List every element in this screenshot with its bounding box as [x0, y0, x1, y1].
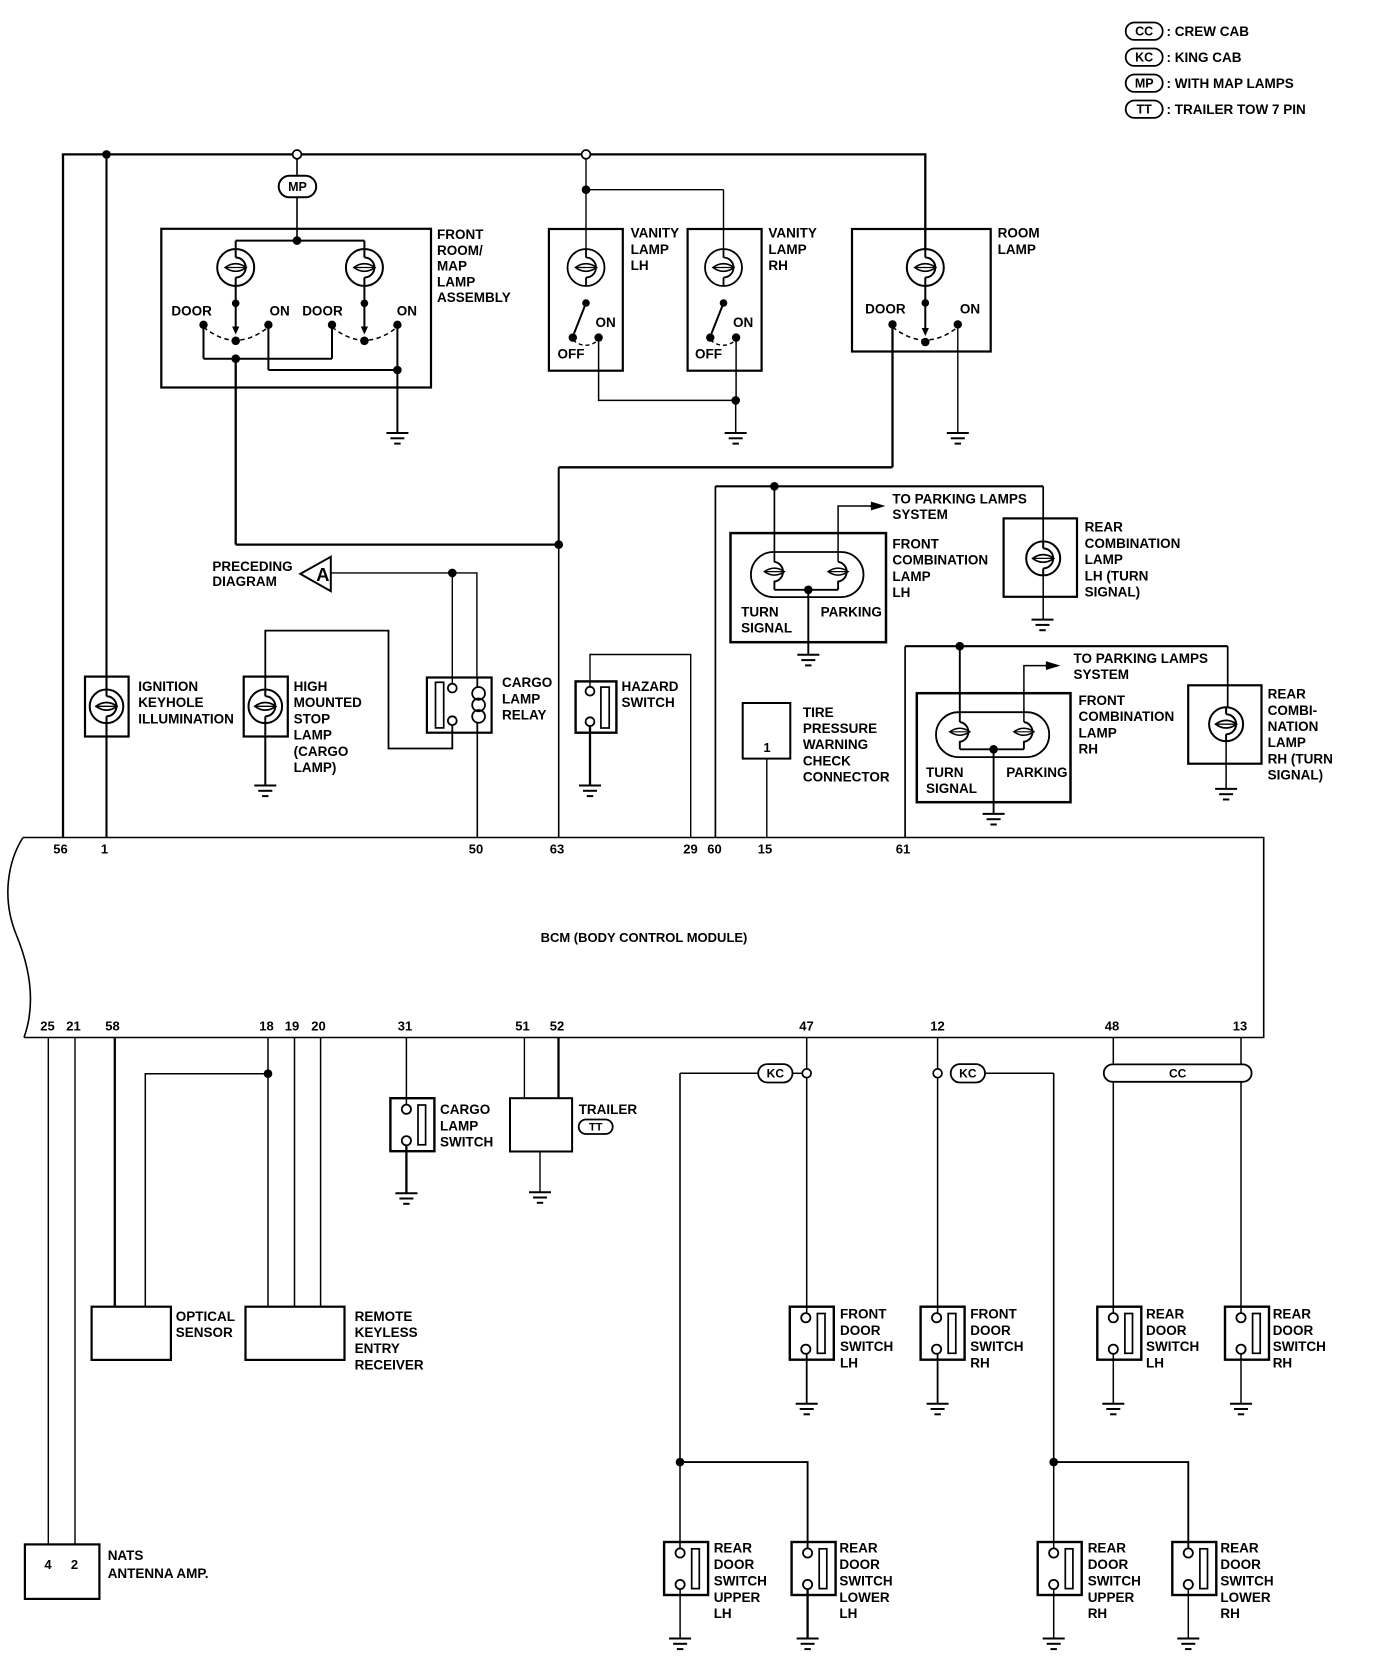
svg-text:ILLUMINATION: ILLUMINATION — [138, 711, 234, 726]
label DOOR map switch 1 — [171, 303, 212, 318]
wire BCM pin 31 to cargo lamp switch — [405, 1038, 407, 1105]
wire hazard switch to ground — [589, 726, 591, 785]
bulb rear combination lamp LH — [1026, 541, 1060, 575]
bulb map lamp 2 — [346, 249, 383, 286]
pin number 12 (BCM bottom) — [930, 1019, 944, 1034]
svg-text:BCM (BODY CONTROL MODULE): BCM (BODY CONTROL MODULE) — [541, 930, 748, 945]
wire to rear door switch upper RH — [1053, 1462, 1055, 1548]
wire room DOOR horizontal run — [559, 466, 893, 468]
wire junction down to BCM pin 63 — [558, 545, 560, 838]
svg-text:OFF: OFF — [558, 347, 585, 362]
svg-text:56: 56 — [53, 842, 67, 857]
wire ON contact 1 down — [267, 328, 269, 370]
svg-text:CARGO: CARGO — [502, 675, 552, 690]
junction KC branch LH / lower switch — [676, 1458, 685, 1467]
svg-text:CARGO: CARGO — [440, 1102, 490, 1117]
front combination RH parking lens — [1014, 728, 1034, 735]
label rear door switch upper LH — [714, 1541, 767, 1622]
legend connector symbol CC — [1126, 23, 1163, 40]
svg-text:IGNITION: IGNITION — [138, 679, 198, 694]
label rear door switch LH — [1146, 1306, 1199, 1370]
wire map assembly DOOR output down — [235, 359, 237, 545]
bulb rear combination lamp RH — [1209, 707, 1243, 741]
svg-text:48: 48 — [1105, 1019, 1119, 1034]
svg-text:RH (TURN: RH (TURN — [1268, 751, 1333, 766]
rear door switch RH — [1225, 1307, 1269, 1360]
pin number 13 (BCM bottom) — [1233, 1019, 1247, 1034]
svg-text:DOOR: DOOR — [970, 1323, 1011, 1338]
svg-text:CONNECTOR: CONNECTOR — [803, 770, 890, 785]
label BCM (body control module) — [541, 930, 748, 945]
contact OFF vanity LH — [569, 333, 577, 341]
label vanity lamp LH — [631, 226, 680, 273]
wire DOOR contact 2 down — [331, 328, 333, 359]
front combination RH parking filament hook — [1024, 722, 1033, 749]
bulb vanity lamp RH — [705, 249, 742, 286]
svg-text:ON: ON — [733, 315, 753, 330]
option connector MP (with map lamps) — [279, 176, 317, 198]
svg-text:STOP: STOP — [294, 711, 331, 726]
svg-text:ON: ON — [596, 315, 616, 330]
svg-text:HAZARD: HAZARD — [622, 679, 679, 694]
contact ON vanity LH — [594, 333, 602, 341]
svg-text:FRONT: FRONT — [840, 1306, 887, 1321]
wire BCM pin 12 to front door switch RH — [937, 1038, 939, 1314]
svg-text:RH: RH — [768, 258, 788, 273]
contact DOOR map switch 2 — [328, 321, 336, 329]
svg-text:SWITCH: SWITCH — [970, 1339, 1023, 1354]
svg-text:MOUNTED: MOUNTED — [294, 695, 362, 710]
ground rear door switch LH — [1102, 1404, 1124, 1415]
wire turn signal LH rail — [715, 485, 1043, 487]
bulb map lamp 1 — [217, 249, 254, 286]
junction rail / front combination LH — [770, 482, 779, 491]
pin number 58 (BCM bottom) — [105, 1019, 119, 1034]
wire pin 18 branch to optical sensor — [145, 1074, 268, 1307]
contact OFF vanity RH — [706, 333, 714, 341]
junction vanity feed split — [582, 185, 591, 194]
svg-text:25: 25 — [40, 1019, 54, 1034]
connector circle on pin 12 line — [933, 1069, 942, 1078]
wire KC branch LH down — [679, 1073, 681, 1462]
svg-text:FRONT: FRONT — [970, 1306, 1017, 1321]
svg-text:VANITY: VANITY — [768, 226, 817, 241]
label optical sensor — [176, 1309, 235, 1340]
svg-text:SYSTEM: SYSTEM — [1074, 667, 1130, 682]
wire A-line to cargo lamp relay coil — [331, 573, 477, 678]
label rear door switch lower LH — [839, 1541, 892, 1622]
dashed wiper arc room lamp — [893, 327, 958, 340]
pin number 25 (BCM bottom) — [40, 1019, 54, 1034]
wire BCM pin 52 to trailer — [557, 1038, 559, 1099]
svg-text:TT: TT — [589, 1122, 603, 1134]
svg-text:WARNING: WARNING — [803, 737, 868, 752]
label PARKING LH — [821, 604, 882, 619]
svg-text:15: 15 — [758, 842, 772, 857]
svg-text:OFF: OFF — [695, 347, 722, 362]
svg-text:LH: LH — [840, 1356, 858, 1371]
svg-text:ASSEMBLY: ASSEMBLY — [437, 290, 511, 305]
svg-text:TRAILER: TRAILER — [579, 1102, 638, 1117]
label ON map switch 1 — [270, 303, 290, 318]
wire vanity RH ON down to ground — [735, 342, 737, 401]
svg-text:SWITCH: SWITCH — [1088, 1573, 1141, 1588]
pin number 20 (BCM bottom) — [311, 1019, 325, 1034]
hazard switch terminal upper — [586, 687, 595, 696]
label trailer — [579, 1102, 638, 1117]
svg-text:FRONT: FRONT — [1079, 693, 1126, 708]
switch lever vanity RH — [712, 303, 724, 334]
svg-text:TURN: TURN — [926, 765, 964, 780]
svg-text:DOOR: DOOR — [714, 1557, 755, 1572]
option connector TT (trailer tow) — [579, 1120, 613, 1135]
wire rear door switch lower LH to ground — [806, 1589, 808, 1638]
switch pivot vanity RH — [720, 299, 728, 307]
svg-text:60: 60 — [707, 842, 721, 857]
pin number 18 (BCM bottom) — [259, 1019, 273, 1034]
svg-text:A: A — [316, 564, 329, 585]
label front combination lamp LH — [892, 536, 988, 600]
switch pivot map lamp 1 — [231, 337, 240, 346]
svg-text:CC: CC — [1135, 25, 1153, 39]
svg-text:52: 52 — [550, 1019, 564, 1034]
switch wiper arrow room lamp — [922, 287, 929, 337]
svg-text:LAMP: LAMP — [440, 1118, 478, 1133]
wire BCM pin 47 to front door switch LH — [806, 1038, 808, 1314]
wire front door switch LH to ground — [806, 1354, 808, 1404]
svg-text:: WITH MAP LAMPS: : WITH MAP LAMPS — [1167, 76, 1294, 91]
svg-text:PRESSURE: PRESSURE — [803, 721, 877, 736]
switch pivot map lamp 2 — [360, 337, 369, 346]
dashed arc vanity RH switch — [710, 340, 736, 345]
svg-text:TURN: TURN — [741, 604, 779, 619]
ground rear door switch RH — [1230, 1404, 1252, 1415]
pin number 15 (BCM top) — [758, 842, 772, 857]
cargo lamp relay contact bar — [436, 682, 444, 728]
svg-text:OPTICAL: OPTICAL — [176, 1309, 235, 1324]
label pin 1 of check connector — [763, 740, 770, 755]
wire BCM pin 20 down — [320, 1038, 322, 1307]
svg-text:LH: LH — [714, 1606, 732, 1621]
terminal dot below map bulb 2 — [361, 300, 369, 308]
hazard switch terminal lower — [586, 717, 595, 726]
svg-text:MAP: MAP — [437, 259, 467, 274]
svg-text:MP: MP — [288, 180, 307, 194]
pin number 19 (BCM bottom) — [285, 1019, 299, 1034]
junction rail / front combination RH — [956, 642, 965, 651]
svg-text:RH: RH — [970, 1356, 990, 1371]
label preceding diagram — [212, 559, 292, 589]
arrow to parking lamps system RH — [1045, 661, 1060, 670]
svg-text:29: 29 — [683, 842, 697, 857]
cargo lamp relay box — [427, 678, 492, 733]
wire BCM pin 58 to optical sensor — [114, 1038, 116, 1307]
svg-text:63: 63 — [550, 842, 564, 857]
label hazard switch — [622, 679, 679, 710]
legend text TRAILER TOW 7 PIN — [1167, 102, 1306, 117]
svg-text:KEYLESS: KEYLESS — [355, 1325, 418, 1340]
wire front door switch RH to ground — [937, 1354, 939, 1404]
label rear combination lamp LH — [1085, 520, 1181, 600]
svg-text:1: 1 — [101, 842, 108, 857]
wire vanity ground stem — [735, 400, 737, 433]
label front room/map lamp assembly — [437, 227, 511, 305]
contact ON map switch 1 — [264, 321, 272, 329]
wire BCM pin 61 up — [904, 646, 906, 837]
junction KC branch RH / lower switch — [1049, 1458, 1058, 1467]
wire relay output to high mounted stop lamp — [265, 631, 452, 749]
label vanity lamp RH — [768, 226, 817, 273]
connector circle on rail at vanity branch — [582, 150, 591, 159]
svg-text:NATION: NATION — [1268, 719, 1319, 734]
bulb high mounted stop lamp — [248, 690, 282, 724]
ground front combination lamp LH — [797, 655, 819, 666]
contact DOOR room lamp — [888, 320, 896, 328]
svg-text:DOOR: DOOR — [865, 301, 906, 316]
front combination lamp LH box — [731, 533, 887, 642]
svg-text:RH: RH — [1088, 1606, 1108, 1621]
wire hazard switch to BCM pin 29 — [590, 655, 691, 838]
switch pivot vanity LH — [582, 299, 590, 307]
pin number 2 (NATS) — [71, 1557, 78, 1572]
pin number 61 (BCM top) — [896, 842, 910, 857]
pin number 29 (BCM top) — [683, 842, 697, 857]
junction vanity grounds — [731, 396, 740, 405]
svg-text:RECEIVER: RECEIVER — [355, 1357, 424, 1372]
front door switch RH — [921, 1307, 965, 1360]
option connector KC (king cab) left — [758, 1064, 792, 1082]
label ignition keyhole illumination — [138, 679, 234, 726]
room lamp box — [852, 229, 991, 352]
svg-text:51: 51 — [515, 1019, 529, 1034]
wire BCM pin 48 to rear door switch LH — [1112, 1038, 1114, 1314]
label tire pressure warning check connector — [803, 705, 890, 785]
wire DOOR contact 1 down — [203, 328, 205, 359]
svg-text:SWITCH: SWITCH — [714, 1573, 767, 1588]
wire room lamp DOOR output down — [891, 328, 893, 467]
svg-text:2: 2 — [71, 1557, 78, 1572]
wire BCM pin 18 down — [267, 1038, 269, 1307]
svg-text:DOOR: DOOR — [1088, 1557, 1129, 1572]
svg-text:PRECEDING: PRECEDING — [212, 559, 292, 574]
vanity lamp RH box — [688, 229, 762, 371]
front combination lamp RH box — [917, 693, 1071, 802]
svg-text:COMBINATION: COMBINATION — [892, 553, 988, 568]
ground rear combination lamp RH — [1215, 789, 1237, 800]
svg-text:LAMP: LAMP — [1085, 552, 1123, 567]
label PARKING RH — [1006, 765, 1067, 780]
switch lever vanity LH — [574, 303, 586, 334]
pin number 31 (BCM bottom) — [398, 1019, 412, 1034]
legend connector symbol TT — [1126, 101, 1163, 118]
ground front combination lamp RH — [983, 814, 1005, 825]
switch wiper arrow map lamp 2 — [361, 287, 368, 335]
pin number 4 (NATS) — [44, 1557, 52, 1572]
wire KC branch LH horizontal — [680, 1072, 758, 1074]
svg-text:REAR: REAR — [1088, 1541, 1127, 1556]
option connector CC (crew cab) — [1104, 1064, 1252, 1081]
label NATS antenna amp — [108, 1548, 209, 1581]
svg-text:PARKING: PARKING — [821, 604, 882, 619]
wire pin 56 vertical (battery feed left) — [62, 154, 64, 837]
svg-text:31: 31 — [398, 1019, 412, 1034]
ground rear door switch upper RH — [1043, 1639, 1065, 1650]
trailer connector box — [510, 1098, 572, 1151]
wire front comb LH to ground — [807, 590, 809, 655]
wire MP connector to map lamp assembly — [296, 197, 298, 240]
junction A-line / relay contact feed — [448, 569, 457, 578]
svg-text:FRONT: FRONT — [437, 227, 484, 242]
svg-text:50: 50 — [469, 842, 483, 857]
svg-text:DOOR: DOOR — [840, 1323, 881, 1338]
wire vanity LH ON to ground bus — [599, 342, 734, 401]
junction ON bus / ground leg — [393, 366, 402, 375]
label to parking lamps system RH — [1074, 651, 1209, 682]
svg-text:LOWER: LOWER — [1220, 1590, 1270, 1605]
svg-text:SWITCH: SWITCH — [440, 1135, 493, 1150]
ground trailer — [529, 1192, 551, 1203]
svg-text:20: 20 — [311, 1019, 325, 1034]
junction feed bus / entry — [293, 236, 302, 245]
label front door switch RH — [970, 1306, 1023, 1370]
off-page connector triangle A — [300, 557, 331, 591]
ground rear door switch lower RH — [1177, 1639, 1199, 1650]
ground front door switch LH — [796, 1404, 818, 1415]
legend text WITH MAP LAMPS — [1167, 76, 1294, 91]
label to parking lamps system LH — [892, 491, 1027, 522]
label rear combination lamp RH — [1268, 687, 1333, 783]
wire front comb RH to ground — [993, 749, 995, 814]
svg-text:NATS: NATS — [108, 1548, 144, 1563]
svg-text:CHECK: CHECK — [803, 753, 851, 768]
wire pin 1 drop upper (to ignition keyhole lamp) — [105, 154, 107, 690]
legend connector symbol MP — [1126, 75, 1163, 92]
svg-text:UPPER: UPPER — [1088, 1590, 1135, 1605]
remote keyless entry receiver box — [246, 1307, 345, 1360]
label front combination lamp RH — [1079, 693, 1175, 757]
svg-text:TO PARKING LAMPS: TO PARKING LAMPS — [1074, 651, 1209, 666]
svg-text:LAMP: LAMP — [294, 728, 332, 743]
svg-text:KC: KC — [1135, 51, 1153, 65]
svg-text:LH: LH — [839, 1606, 857, 1621]
svg-text:DOOR: DOOR — [1146, 1323, 1187, 1338]
wire top power rail — [62, 153, 925, 155]
wire rear door switch upper RH to ground — [1053, 1589, 1055, 1638]
contact ON vanity RH — [732, 333, 740, 341]
svg-text:KEYHOLE: KEYHOLE — [138, 695, 203, 710]
label rear door switch upper RH — [1088, 1541, 1141, 1622]
svg-text:REAR: REAR — [1146, 1306, 1185, 1321]
wire to rear door switch lower RH — [1054, 1462, 1189, 1548]
pin number 63 (BCM top) — [550, 842, 564, 857]
svg-text:SYSTEM: SYSTEM — [892, 507, 948, 522]
svg-text:LAMP: LAMP — [437, 274, 475, 289]
contact ON room lamp — [954, 320, 962, 328]
svg-text:SIGNAL): SIGNAL) — [1085, 585, 1141, 600]
svg-text:LAMP): LAMP) — [294, 760, 337, 775]
wire high mounted stop lamp to ground — [264, 722, 266, 785]
svg-text:UPPER: UPPER — [714, 1590, 761, 1605]
NATS antenna amp box — [25, 1544, 100, 1599]
wire BCM pin 51 to trailer — [523, 1038, 525, 1099]
wire KC branch RH down — [1053, 1073, 1055, 1462]
rear door switch upper RH — [1038, 1542, 1082, 1595]
wire vertical to junction — [558, 467, 560, 544]
svg-text:FRONT: FRONT — [892, 536, 939, 551]
pin number 21 (BCM bottom) — [66, 1019, 80, 1034]
label OFF vanity LH — [558, 347, 585, 362]
wire front comb RH common bus — [960, 748, 1024, 750]
svg-text:ON: ON — [960, 301, 980, 316]
pin number 56 (BCM top) — [53, 842, 67, 857]
svg-text:ANTENNA AMP.: ANTENNA AMP. — [108, 1566, 209, 1581]
svg-text:DOOR: DOOR — [839, 1557, 880, 1572]
svg-text:PARKING: PARKING — [1006, 765, 1067, 780]
svg-text:58: 58 — [105, 1019, 119, 1034]
terminal dot below room bulb — [922, 299, 930, 307]
front combination LH bulb housing (stadium) — [751, 552, 864, 597]
svg-text:18: 18 — [259, 1019, 273, 1034]
ground cargo lamp switch — [395, 1193, 417, 1204]
legend text KING CAB — [1167, 50, 1242, 65]
svg-text:: CREW CAB: : CREW CAB — [1167, 24, 1250, 39]
wire rear door switch upper LH to ground — [679, 1589, 681, 1638]
svg-text:SWITCH: SWITCH — [839, 1573, 892, 1588]
wire room lamp ON to ground — [957, 328, 959, 433]
wire KC pill to branch RH — [985, 1072, 1054, 1074]
svg-text:DOOR: DOOR — [302, 303, 343, 318]
connector circle on pin 47 line — [802, 1069, 811, 1078]
svg-text:REAR: REAR — [839, 1541, 878, 1556]
label cargo lamp relay — [502, 675, 552, 722]
wire BCM pin 60 up — [714, 486, 716, 837]
wire rail to rear combination RH — [1227, 646, 1229, 708]
label TURN SIGNAL LH — [741, 604, 792, 635]
label TURN SIGNAL RH — [926, 765, 977, 796]
front combination RH bulb housing (stadium) — [936, 712, 1049, 757]
wire pin 1 drop lower (ignition lamp to BCM pin 1) — [105, 722, 107, 837]
junction door-signal node to pin 63 — [554, 540, 563, 549]
svg-text:: TRAILER TOW 7 PIN: : TRAILER TOW 7 PIN — [1167, 102, 1306, 117]
svg-text:TT: TT — [1137, 103, 1153, 117]
bulb vanity lamp LH — [568, 249, 605, 286]
pin number 51 (BCM bottom) — [515, 1019, 529, 1034]
hazard switch slot — [601, 687, 609, 728]
svg-text:LAMP: LAMP — [892, 569, 930, 584]
svg-text:DOOR: DOOR — [1273, 1323, 1314, 1338]
front combination LH parking filament hook — [838, 562, 847, 590]
wire rear comb LH to ground — [1042, 575, 1044, 620]
tire pressure warning check connector box — [743, 703, 791, 759]
ground vanity lamps — [725, 433, 747, 444]
cargo lamp switch — [390, 1098, 434, 1151]
svg-text:MP: MP — [1135, 77, 1154, 91]
label room lamp — [998, 226, 1040, 257]
svg-text:REAR: REAR — [1273, 1306, 1312, 1321]
svg-text:REAR: REAR — [1220, 1541, 1259, 1556]
label cargo lamp switch — [440, 1102, 493, 1149]
ground room lamp — [947, 433, 969, 444]
wire map DOOR horizontal run — [236, 543, 559, 545]
svg-text:SENSOR: SENSOR — [176, 1325, 233, 1340]
front room/map lamp assembly box — [161, 229, 431, 388]
ground rear door switch lower LH — [797, 1639, 819, 1650]
label ON room lamp — [960, 301, 980, 316]
label high mounted stop lamp — [294, 679, 362, 775]
wire rail to vanity lamp LH — [585, 159, 587, 250]
wire BCM pin 19 down — [294, 1038, 296, 1307]
svg-text:19: 19 — [285, 1019, 299, 1034]
